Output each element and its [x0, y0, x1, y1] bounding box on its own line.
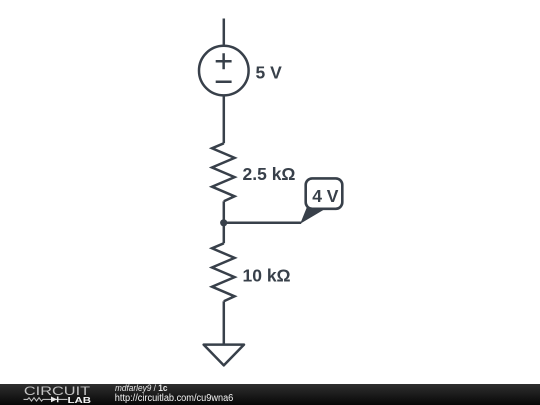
- wire R1 to node: [223, 201, 226, 223]
- node name callout pointer: [301, 208, 325, 223]
- node name callout box 4 V: [306, 178, 343, 208]
- wire node to callout: [224, 222, 302, 225]
- svg-text:2.5 kΩ: 2.5 kΩ: [243, 164, 296, 184]
- wire node to R2: [223, 223, 226, 244]
- logo resistor squiggle: [24, 398, 52, 401]
- voltage source V1 circle: [199, 46, 249, 96]
- svg-text:10 kΩ: 10 kΩ: [243, 266, 291, 286]
- logo diode wire: [51, 398, 68, 400]
- svg-text:mdfarley9 / 1c: mdfarley9 / 1c: [115, 383, 168, 393]
- wire top stub: [223, 19, 226, 45]
- logo diode triangle: [51, 397, 57, 403]
- V1 plus sign: [216, 53, 232, 69]
- svg-text:http://circuitlab.com/cu9wna6: http://circuitlab.com/cu9wna6: [115, 393, 234, 404]
- ground symbol: [204, 345, 244, 366]
- node junction dot: [220, 219, 227, 226]
- svg-text:5 V: 5 V: [256, 63, 283, 83]
- svg-text:4 V: 4 V: [312, 186, 339, 206]
- resistor R2 zigzag: [212, 243, 235, 301]
- svg-text:LAB: LAB: [68, 395, 92, 405]
- wire V1 to R1: [223, 96, 226, 143]
- footer bar: [0, 384, 540, 405]
- resistor R1 zigzag: [212, 143, 235, 201]
- wire R2 to ground: [223, 301, 226, 344]
- V1 minus sign: [216, 80, 232, 83]
- logo diode bar: [57, 397, 59, 403]
